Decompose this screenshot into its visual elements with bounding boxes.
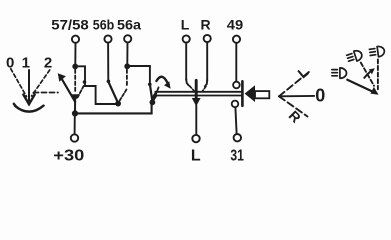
rod left fork prongs — [152, 92, 156, 98]
contact 3 dashed blade alternate — [154, 87, 159, 100]
svg-text:56a: 56a — [117, 17, 141, 33]
node contact 2 pivot — [115, 101, 121, 107]
wire S-path from node 57/58 to contact2 pivot — [75, 66, 118, 104]
contact L hook — [186, 79, 189, 85]
headlight icon 3 — [369, 46, 385, 58]
wire 57/58 stem — [74, 43, 76, 64]
rotary pointer position 1 (solid arrow down) — [28, 70, 30, 101]
wire bus to terminal +30 — [74, 113, 76, 133]
svg-text:+30: +30 — [53, 148, 84, 165]
terminal L top — [183, 35, 190, 42]
contact 49 upper circle — [233, 82, 240, 89]
rotary pointer position 2 (dashed) — [32, 70, 50, 96]
wire arm to bottom L terminal — [195, 105, 197, 134]
rotary pointer position 0 (dashed) — [11, 69, 27, 97]
contact 1 dashed blade alternate — [77, 86, 83, 98]
terminal 56b — [104, 35, 111, 42]
wire 56b stem — [107, 43, 109, 80]
svg-text:L: L — [181, 17, 190, 33]
wire 56a node to contact 3 — [127, 66, 150, 83]
curved flick arrow — [364, 70, 372, 78]
node junction 57/58 — [72, 64, 78, 70]
node bus junction — [72, 110, 78, 116]
contact 2 dashed line down from 56a node — [126, 70, 128, 88]
headlight icon 1 (parking/low) — [332, 68, 347, 78]
rotation arc — [14, 104, 44, 112]
contact 2 dashed blade alternate — [120, 90, 127, 101]
svg-text:31: 31 — [230, 148, 244, 165]
contact 3 hinge — [148, 83, 152, 87]
contact 1 dashed centre line with arrow down — [74, 70, 76, 94]
contact 2 blade (solid) — [109, 82, 118, 102]
svg-text:L: L — [191, 148, 201, 165]
contact 1 blade (solid, with arrow up-left) — [62, 79, 76, 102]
node junction 56a — [124, 63, 130, 69]
mechanical link dashed line to contact 1 — [34, 92, 59, 94]
lever ray to R (dashed) — [279, 96, 308, 116]
wire 56a stem — [126, 42, 128, 64]
contact 3 blade (solid) — [150, 85, 152, 102]
dashed ray to headlight icon 3 — [377, 59, 379, 89]
contact R dashed alternate — [203, 86, 206, 91]
curved arrow actuation contact 3 — [156, 77, 167, 83]
rod right end bar — [241, 81, 244, 106]
actuator rod lower line — [155, 95, 242, 97]
contact L dashed alternate — [190, 86, 194, 91]
wire pivot1 to bus node — [74, 100, 76, 112]
terminal R top — [204, 35, 211, 42]
svg-text:49: 49 — [227, 17, 244, 33]
terminal 31 — [234, 134, 241, 141]
svg-text:0: 0 — [315, 86, 325, 106]
terminal 57/58 — [72, 36, 79, 43]
wire L-top stem — [185, 43, 187, 80]
lever actuation arrow (big left arrow) — [245, 85, 255, 102]
turn signal arm (arrow down) — [195, 80, 198, 98]
terminal 56a — [124, 35, 131, 42]
node contact 3 pivot — [150, 99, 156, 105]
contact R hook — [205, 80, 207, 86]
wire 49 stem — [235, 43, 237, 82]
headlight icon 2 — [346, 49, 363, 63]
svg-text:R: R — [200, 17, 210, 33]
wire R-top stem — [206, 42, 208, 81]
wire lower circle to terminal 31 — [235, 107, 236, 133]
actuator rod upper line — [155, 91, 241, 93]
terminal 49 — [233, 36, 240, 43]
contact 31 lower circle — [232, 101, 239, 108]
wire bottom bus — [75, 103, 152, 113]
dashed ray to headlight icon 2 — [361, 63, 374, 86]
svg-text:2: 2 — [44, 54, 52, 71]
terminal +30 — [71, 134, 78, 141]
svg-text:57/58: 57/58 — [51, 17, 89, 33]
contact 1 fixed point (hinge) — [83, 80, 87, 84]
lever ray to L (dashed) — [279, 72, 310, 97]
svg-text:56b: 56b — [93, 17, 115, 33]
svg-text:1: 1 — [22, 54, 30, 71]
lever ray to 0 — [279, 95, 314, 97]
terminal L bottom — [192, 135, 199, 142]
contact 2 hinge — [107, 80, 111, 84]
solid ray to headlight icon 1 with arrowhead at pivot — [347, 80, 374, 93]
